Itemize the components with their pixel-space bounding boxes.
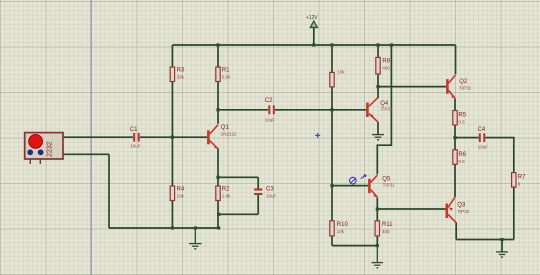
wire: emitter node to C3 top <box>218 176 258 178</box>
junction: Q1 emitter node <box>216 176 219 179</box>
svg-text:10uF: 10uF <box>478 144 489 149</box>
svg-text:R3: R3 <box>177 68 185 74</box>
transistor Q4 (PNP TIP32) <box>367 98 393 122</box>
wire: Q5 base wire <box>332 185 368 187</box>
junction: Q2 base at R8 lead <box>376 85 379 88</box>
transistor Q1 (NPN 2N2222) <box>208 125 237 149</box>
svg-text:10uF: 10uF <box>130 144 141 149</box>
wire: R8 top lead to bus <box>377 45 379 57</box>
origin marker (blue cross) <box>315 133 320 138</box>
junction: mid column at bus <box>330 43 333 46</box>
svg-text:Q2: Q2 <box>459 79 468 85</box>
wire: R10 bottom lead <box>331 236 333 246</box>
wire: R6 bottom to Q3 emitter <box>454 164 456 197</box>
wire: C2 to Q4 base <box>275 109 366 111</box>
resistor R7 <box>512 173 527 188</box>
resistor R1 <box>216 67 231 82</box>
resistor R11 <box>375 221 393 236</box>
svg-text:2N2222: 2N2222 <box>221 132 237 137</box>
svg-text:Q1: Q1 <box>221 125 230 131</box>
ground (below R11) <box>372 246 384 268</box>
wire: R4 bottom to ground bus <box>171 201 173 229</box>
wire: mid column bus to 10k resistor <box>331 45 333 72</box>
svg-text:R11: R11 <box>382 222 393 228</box>
wire: C4 to load column <box>486 138 514 173</box>
ground (bottom right) <box>496 252 508 257</box>
svg-text:TIP31: TIP31 <box>459 85 472 90</box>
junction: R1 at bus <box>216 43 219 46</box>
svg-text:0.5: 0.5 <box>458 119 465 124</box>
capacitor C2 <box>265 98 276 122</box>
resistor 10k (mid column) <box>330 70 346 87</box>
power symbol +12V <box>306 15 318 28</box>
sheet border line <box>90 0 92 275</box>
input audio source (red module) <box>25 133 63 164</box>
junction: Q5 jog at bus <box>390 43 393 46</box>
junction: output node at R5/R6 <box>453 136 456 139</box>
junction: ground tap left bus <box>194 226 197 229</box>
wire: R8 bottom to Q4 collector <box>377 74 379 98</box>
junction: Q5 base at mid column <box>330 184 333 187</box>
svg-text:10k: 10k <box>177 194 185 199</box>
wire: R1 top lead to bus <box>217 45 219 67</box>
svg-text:Q3: Q3 <box>457 202 466 208</box>
svg-text:C3: C3 <box>266 187 274 193</box>
svg-text:R2: R2 <box>222 187 230 193</box>
resistor R8 <box>376 57 391 74</box>
svg-text:R8: R8 <box>382 59 390 65</box>
wire: output node to R6 <box>454 138 456 150</box>
svg-text:10uF: 10uF <box>266 194 277 199</box>
wire: input source top pin to C1 <box>63 136 133 138</box>
svg-text:400: 400 <box>382 229 390 234</box>
junction: R3-R4 at Q1 base <box>171 136 174 139</box>
svg-text:Q5: Q5 <box>382 177 391 183</box>
wire: C3 top lead <box>257 177 259 188</box>
svg-text:TIP32: TIP32 <box>457 209 470 214</box>
svg-text:C4: C4 <box>478 127 486 133</box>
wire: Q1 collector node to C2 <box>218 109 268 111</box>
source blue terminals <box>28 150 33 155</box>
wire: bus corner down to Q2 collector <box>455 45 457 74</box>
resistor R5 <box>453 111 467 126</box>
wire: R11 bottom lead <box>376 236 378 246</box>
junction: R8 at bus <box>376 43 379 46</box>
svg-text:R10: R10 <box>337 222 349 228</box>
svg-text:R6: R6 <box>458 152 466 158</box>
junction: right ground tap <box>500 238 503 241</box>
svg-text:2232: 2232 <box>47 141 54 157</box>
capacitor C4 <box>478 127 489 149</box>
capacitor C3 <box>254 187 276 199</box>
wire: R5 bottom to output node <box>454 125 456 138</box>
wire: C1 to Q1 base <box>140 136 207 138</box>
source red lamp <box>29 135 43 149</box>
wire: bottom mid ground bus <box>332 245 377 247</box>
wire: output node to C4 <box>455 137 479 139</box>
svg-text:8: 8 <box>518 182 521 187</box>
probe marker (blue, at Q5 base) <box>350 175 367 184</box>
svg-text:C2: C2 <box>265 98 273 104</box>
svg-text:10k: 10k <box>337 70 345 75</box>
junction: Q5 emitter node <box>376 207 379 210</box>
wire: +12V top supply bus <box>172 44 455 46</box>
wire: R3 top lead to bus <box>171 45 173 67</box>
wire: Q2 base wire from R8 node <box>378 86 446 88</box>
junction: R2 at left ground bus <box>217 226 220 229</box>
svg-text:R1: R1 <box>222 68 230 74</box>
wire: Q3 collector down <box>455 223 457 240</box>
svg-text:R4: R4 <box>177 187 185 193</box>
wire: Q1 base node down to R4 top <box>171 137 173 186</box>
wire: R2 bottom to ground bus <box>217 201 219 229</box>
svg-text:+12V: +12V <box>306 15 318 21</box>
svg-text:400: 400 <box>382 66 390 71</box>
transistor Q5 (NPN TIP31) <box>369 175 395 197</box>
svg-text:TIP32: TIP32 <box>381 107 394 112</box>
wire: C3 bottom to R2 lead <box>219 213 259 215</box>
ground (below Q4 emitter) <box>372 135 384 140</box>
junction: C3 bottom at R2 lead <box>217 213 220 216</box>
junction: +12V tap on bus <box>312 43 315 46</box>
resistor R3 <box>170 67 185 82</box>
wire: R3 bottom to Q1 base node <box>171 82 173 138</box>
source pin stubs <box>29 159 31 164</box>
wire: left ground bus <box>109 227 219 229</box>
svg-text:C1: C1 <box>130 127 138 133</box>
wire: input source bottom pin <box>63 153 109 155</box>
svg-text:R7: R7 <box>518 175 526 181</box>
wire: C3 bottom lead <box>257 195 259 215</box>
resistor R4 <box>170 186 185 201</box>
wire: Q5 emitter node to Q3 base <box>377 208 445 210</box>
resistor R2 <box>216 186 231 201</box>
svg-text:5.6k: 5.6k <box>222 75 231 80</box>
wire: bottom right bus <box>456 239 514 241</box>
wire: Q5 collector up jog <box>377 45 391 174</box>
svg-text:39k: 39k <box>177 75 185 80</box>
wire: R1 bottom to Q1 collector <box>217 82 219 124</box>
wire: +12V stem <box>313 28 315 46</box>
capacitor C1 <box>130 127 141 149</box>
svg-text:10uF: 10uF <box>265 117 276 122</box>
svg-text:R5: R5 <box>458 112 466 118</box>
svg-text:1.8k: 1.8k <box>222 194 231 199</box>
wire: Q4 emitter to ground <box>377 122 379 134</box>
wire: R7 bottom lead <box>513 187 515 240</box>
resistor R6 <box>453 150 467 165</box>
transistor Q2 (NPN TIP31) <box>447 75 471 99</box>
wire: right ground stem <box>501 240 503 252</box>
svg-text:0.5: 0.5 <box>458 159 465 164</box>
svg-text:10k: 10k <box>337 229 345 234</box>
junction: mid column at C2 wire <box>330 108 333 111</box>
wire: 10k resistor down through nodes to R10 <box>331 87 333 221</box>
wire: Q1 emitter down to R2 <box>217 149 219 187</box>
wire: source return drop <box>108 154 110 228</box>
resistor R10 <box>330 221 349 236</box>
wire: R11 top to Q5 emitter node <box>376 198 378 221</box>
junction: R4 at left ground bus <box>171 226 174 229</box>
junction: Q1 collector at C2 wire <box>216 108 219 111</box>
svg-text:TIP31: TIP31 <box>383 183 396 188</box>
wire: Q2 emitter to R5 <box>454 99 456 111</box>
transistor Q3 (PNP TIP32) <box>447 197 470 223</box>
junction: R11 at mid ground bus <box>376 244 379 247</box>
ground (left, below R2/R4 bus) <box>189 228 201 249</box>
